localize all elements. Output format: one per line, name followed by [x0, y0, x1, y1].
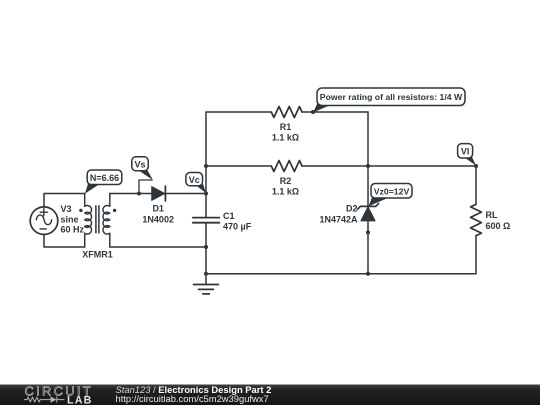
wire zener anode down to bottom rail [367, 221, 369, 274]
resistor R1 [271, 107, 302, 118]
wire secondary top to diode D1 [110, 193, 152, 195]
svg-text:D1: D1 [152, 204, 164, 214]
svg-text:1.1 kΩ: 1.1 kΩ [272, 133, 299, 143]
svg-text:Vs: Vs [134, 160, 145, 170]
diode D1 [152, 186, 166, 201]
zener diode D2 [357, 203, 378, 221]
label V3 value text [61, 204, 85, 235]
footer logo squiggle resistor+diode [24, 396, 65, 402]
node dot zener anode [366, 231, 370, 235]
svg-text:RL: RL [486, 210, 498, 220]
ground [194, 285, 219, 294]
capacitor C1 [193, 218, 220, 223]
annotation note: power rating [313, 88, 465, 112]
bottom rail wire [206, 273, 476, 275]
svg-text:60 Hz: 60 Hz [61, 225, 85, 235]
transformer XFMR1 secondary coil [103, 194, 110, 248]
wire left column: top rail down through C1 to ground [205, 112, 207, 284]
transformer XFMR1 primary coil [85, 194, 92, 248]
R2 rail wire [206, 165, 476, 167]
node dot note pointer on top rail [311, 110, 315, 114]
wire RL bottom to rail [475, 236, 477, 274]
svg-text:1N4742A: 1N4742A [319, 215, 358, 225]
transformer phasing dot right [113, 209, 116, 212]
svg-text:C1: C1 [223, 211, 235, 221]
svg-text:VI: VI [461, 147, 470, 157]
svg-text:Vc: Vc [189, 175, 200, 185]
wire diode D1 to node Vc [165, 193, 206, 195]
svg-text:1.1 kΩ: 1.1 kΩ [272, 187, 299, 197]
svg-text:R1: R1 [280, 122, 292, 132]
node dot column/R2 rail [204, 164, 208, 168]
node dot zener/bottom rail [366, 272, 370, 276]
svg-text:D2: D2 [346, 204, 358, 214]
svg-text:Power rating of all resistors:: Power rating of all resistors: 1/4 W [320, 92, 463, 102]
svg-text:1N4002: 1N4002 [142, 215, 174, 225]
node dot Vc junction [204, 192, 208, 196]
wire right vertical from top rail to R2 rail [367, 112, 369, 166]
annotation flag Vl [458, 144, 476, 166]
node dot zener/R2 rail [366, 164, 370, 168]
wire RL column top [475, 166, 477, 204]
wire V3 bottom to primary [44, 235, 85, 248]
svg-text:XFMR1: XFMR1 [82, 250, 113, 260]
svg-text:N=6.66: N=6.66 [90, 173, 119, 183]
wire zener column upper [367, 166, 369, 206]
voltage source V3 [30, 207, 58, 235]
top rail wire with R1 [206, 111, 271, 113]
svg-text:Vz0=12V: Vz0=12V [374, 186, 410, 196]
svg-text:sine: sine [61, 214, 79, 224]
svg-text:LAB: LAB [67, 394, 93, 405]
wire secondary bottom to capacitor column [110, 246, 206, 248]
svg-text:V3: V3 [61, 204, 72, 214]
svg-text:470 µF: 470 µF [223, 222, 252, 232]
annotation flag N=6.66 [85, 170, 122, 194]
svg-text:http://circuitlab.com/c5m2w39g: http://circuitlab.com/c5m2w39gufwx7 [116, 393, 269, 404]
wire V3 top to primary [44, 194, 85, 208]
resistor RL [471, 204, 482, 235]
transformer phasing dot left [79, 209, 82, 212]
annotation flag Vz0=12V [369, 184, 413, 207]
node dot column/bottom rail [204, 272, 208, 276]
resistor R2 [271, 161, 302, 172]
node dot secondary bottom junction [204, 245, 208, 249]
node dot Vs junction [137, 192, 141, 196]
svg-text:R2: R2 [280, 176, 292, 186]
footer bar [0, 383, 540, 405]
transformer core [96, 206, 99, 233]
node dot Vl junction [474, 164, 478, 168]
annotation flag Vc [186, 173, 206, 194]
svg-text:600 Ω: 600 Ω [486, 221, 511, 231]
wire R1 to right corner [302, 111, 368, 113]
annotation flag Vs [132, 157, 153, 192]
